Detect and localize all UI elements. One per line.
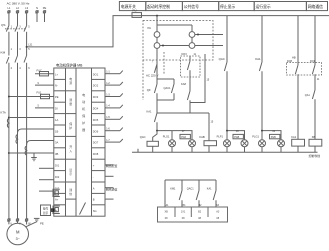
svg-text:SG: SG (93, 209, 97, 213)
svg-text:KM1: KM1 (170, 188, 176, 191)
svg-text:网络通信: 网络通信 (308, 4, 323, 9)
svg-text:A+: A+ (55, 198, 59, 202)
terminal strip XT (158, 207, 228, 222)
terminal U (7, 219, 10, 222)
svg-text:KAB: KAB (199, 135, 205, 139)
svg-text:QAC: QAC (219, 57, 225, 61)
svg-text:QA1: QA1 (305, 94, 311, 97)
svg-text:2X1: 2X1 (181, 205, 186, 207)
svg-text:器: 器 (82, 128, 85, 132)
svg-text:网络配置: 网络配置 (106, 163, 118, 168)
svg-text:KA1: KA1 (147, 110, 152, 114)
svg-text:DI2: DI2 (55, 175, 60, 179)
svg-text:PE: PE (40, 222, 44, 226)
svg-text:-: - (93, 176, 94, 179)
wire N stub (36, 13, 38, 22)
lamp 2 with DO box (180, 134, 190, 138)
wire: N rail (132, 151, 318, 153)
svg-text:KB: KB (312, 135, 316, 139)
header label boxes (119, 2, 145, 11)
svg-text:护: 护 (69, 125, 72, 130)
svg-text:停止显示: 停止显示 (220, 4, 235, 9)
svg-text:3B: 3B (55, 152, 58, 156)
svg-text:PA: PA (148, 26, 152, 30)
meter PA2 (189, 32, 195, 38)
svg-text:DO6: DO6 (93, 129, 99, 133)
svg-text:AC 380 V, 50 Hz: AC 380 V, 50 Hz (7, 2, 30, 6)
protector output stubs (105, 73, 120, 75)
svg-text:3A: 3A (55, 141, 58, 145)
svg-text:HB: HB (292, 56, 296, 60)
svg-text:3~: 3~ (16, 237, 20, 241)
svg-text:1X1: 1X1 (181, 211, 186, 214)
meter PA1 (154, 32, 160, 38)
svg-text:DO2: DO2 (93, 84, 99, 88)
node control tap (26, 46, 28, 48)
svg-text:PLP1: PLP1 (217, 135, 224, 139)
wire rs485 slant (80, 203, 86, 215)
terminal W (25, 219, 28, 222)
connector plug 1 (53, 189, 60, 196)
svg-text:PLG1: PLG1 (252, 135, 259, 139)
svg-text:KA8: KA8 (181, 82, 186, 86)
svg-text:PLG1: PLG1 (163, 135, 170, 139)
wire lamp feed 1 (157, 131, 192, 140)
svg-text:KA1: KA1 (255, 57, 261, 61)
svg-text:网络通信: 网络通信 (106, 187, 118, 192)
svg-text:DI1: DI1 (55, 164, 60, 168)
svg-text:DO3: DO3 (93, 95, 99, 99)
lamp branch DO6 (227, 131, 245, 153)
ground (33, 153, 35, 158)
svg-text:KA1: KA1 (207, 188, 212, 191)
wire: control phase rail (27, 16, 329, 47)
wire meter out2 (160, 45, 189, 47)
svg-text:XB: XB (165, 211, 169, 214)
dashed contact DO3 (181, 56, 201, 77)
svg-text:PGB: PGB (271, 136, 276, 139)
protector block U1 (54, 68, 105, 216)
svg-text:电: 电 (82, 92, 85, 97)
wire 15 branch (190, 54, 205, 103)
meter PV2 (189, 43, 195, 49)
svg-text:FU: FU (133, 8, 137, 12)
svg-text:入: 入 (69, 149, 72, 153)
fuse FU (132, 13, 142, 18)
dashed meter box (143, 21, 213, 61)
svg-text:FU1: FU1 (37, 90, 42, 94)
svg-text:1A: 1A (55, 118, 58, 122)
svg-text:QAC1: QAC1 (164, 86, 172, 90)
svg-text:B: B (93, 198, 95, 202)
svg-text:护: 护 (82, 120, 85, 125)
svg-text:DO7: DO7 (93, 141, 99, 145)
svg-text:公共信号: 公共信号 (184, 4, 199, 9)
meter PV1 (154, 43, 160, 49)
svg-text:DO1: DO1 (93, 72, 99, 76)
svg-text:QAC: QAC (140, 135, 146, 139)
svg-text:1B: 1B (55, 129, 58, 133)
remote signal bus (165, 180, 216, 207)
wire CT2 tap (18, 129, 54, 134)
svg-text:DO8: DO8 (93, 152, 99, 156)
svg-text:QF: QF (147, 88, 151, 92)
svg-text:KA1: KA1 (291, 135, 296, 139)
svg-text:A: A (93, 186, 95, 190)
svg-text:M: M (16, 229, 20, 234)
svg-text:DO5: DO5 (93, 118, 99, 122)
operator display box (41, 205, 51, 216)
wire y113 (157, 112, 209, 114)
svg-text:PE: PE (43, 6, 47, 10)
lamp branch 2 (262, 131, 281, 153)
wire CT3 tap (27, 141, 54, 146)
svg-text:PG6: PG6 (181, 136, 186, 139)
svg-text:操作: 操作 (43, 207, 49, 211)
dashed box 2 (143, 52, 164, 100)
svg-text:量: 量 (69, 101, 72, 106)
wire meter loop (157, 16, 192, 79)
svg-text:控制零线: 控制零线 (309, 153, 321, 158)
wire PE stub (44, 13, 46, 22)
svg-text:源: 源 (69, 80, 72, 85)
svg-text:动: 动 (82, 99, 85, 104)
svg-text:KTA: KTA (1, 111, 6, 115)
svg-text:电动机保护器 MB: 电动机保护器 MB (56, 62, 83, 67)
svg-text:DO4: DO4 (93, 107, 99, 111)
svg-text:PE: PE (55, 95, 59, 99)
svg-text:N-: N- (55, 84, 58, 88)
svg-text:DO3: DO3 (182, 53, 188, 56)
svg-text:L+: L+ (55, 72, 58, 76)
wire meter out1 (195, 34, 223, 36)
motor PE wire (26, 222, 37, 227)
svg-text:L31: L31 (28, 43, 33, 46)
svg-text:运行显示: 运行显示 (256, 4, 271, 9)
svg-text:起动时序控制: 起动时序控制 (147, 4, 170, 9)
wire CT common (8, 152, 10, 154)
svg-text:KM: KM (1, 51, 6, 55)
wire CT1 tap (8, 117, 10, 119)
svg-text:DI: DI (55, 107, 58, 111)
svg-text:QS: QS (1, 23, 5, 27)
svg-text:信: 信 (69, 191, 72, 196)
terminal V (16, 219, 19, 222)
wire to motor (8, 221, 10, 224)
svg-text:显示: 显示 (43, 211, 49, 215)
motor M (7, 223, 29, 245)
svg-text:N: N (36, 6, 38, 10)
svg-text:QAC1: QAC1 (187, 188, 194, 191)
connector plug 2 (53, 206, 60, 214)
svg-text:PGB: PGB (234, 136, 239, 139)
svg-text:示: 示 (69, 172, 72, 176)
wire DI stubs (39, 167, 54, 169)
